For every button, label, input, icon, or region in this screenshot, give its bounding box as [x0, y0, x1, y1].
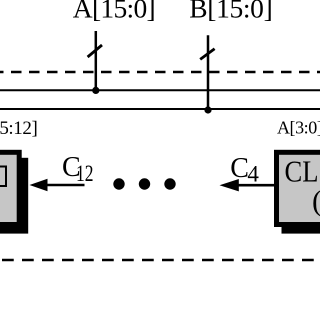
CLA block U4 body (left, cropped) [0, 152, 19, 224]
svg-text:A[15:0]: A[15:0] [73, 0, 155, 24]
ellipsis dot 1 [113, 178, 124, 189]
bus-width slash on A [88, 45, 102, 57]
wire carry arrow into left block (C12) [44, 184, 85, 187]
svg-text:4: 4 [247, 161, 259, 186]
svg-text:5:12]: 5:12] [0, 118, 37, 139]
dashed boundary line (bottom) [2, 259, 320, 262]
wire A vertical bus [95, 31, 98, 90]
ellipsis dot 2 [139, 178, 150, 189]
bus-width slash on B [200, 49, 214, 60]
junction A on bus 1 [92, 87, 99, 94]
CLA block U1 body (right, cropped) [277, 152, 320, 224]
svg-text:(: ( [312, 185, 320, 218]
CLA block U4 drop shadow (left, cropped) [0, 158, 28, 234]
svg-text:A[3:0]: A[3:0] [277, 118, 320, 138]
CLA block U1 drop shadow (right, cropped) [282, 158, 320, 234]
wire carry arrow out of right block (C4) [236, 184, 277, 187]
wire horizontal bus 2 [0, 108, 320, 110]
wire horizontal bus 1 [0, 89, 320, 91]
inner port rectangle of left block [0, 167, 6, 187]
wire B vertical bus [207, 35, 210, 109]
dashed boundary line (top) [0, 71, 320, 74]
ellipsis dot 3 [164, 178, 175, 189]
svg-text:CL: CL [285, 154, 319, 189]
junction B on bus 2 [204, 106, 211, 113]
svg-text:12: 12 [76, 161, 94, 186]
svg-text:B[15:0]: B[15:0] [189, 0, 272, 24]
svg-text:C: C [230, 153, 249, 184]
